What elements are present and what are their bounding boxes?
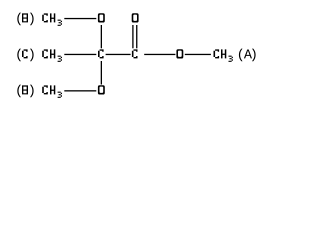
- node C carbonyl carbon: [132, 49, 138, 58]
- wire vertical bond central C to bottom O: [101, 61, 102, 85]
- chemical structure diagram: methyl 2,2-dimethoxypropanoate with NMR assignment labels: [0, 0, 288, 112]
- wire bond central C to carbonyl C: [106, 54, 131, 55]
- label CH3(A) right ester methyl group: [214, 49, 256, 62]
- label (B)CH3 bottom-left methoxy group: [17, 85, 62, 98]
- label (C)CH3 middle-left methyl group: [17, 49, 62, 62]
- node C central quaternary carbon: [98, 49, 104, 58]
- wire vertical bond top O to central C: [101, 25, 102, 48]
- wire bond ester O to CH3(A): [185, 54, 211, 55]
- node O bottom methoxy oxygen: [98, 85, 105, 94]
- wire bond top CH3 to O: [64, 18, 96, 19]
- node O ester oxygen: [176, 49, 183, 58]
- wire bond middle CH3 to central C: [64, 54, 96, 55]
- label (B)CH3 top-left methoxy group: [17, 13, 62, 26]
- wire bond carbonyl C to ester O: [144, 54, 175, 55]
- wire double bond O=C left line: [132, 25, 133, 48]
- wire bond bottom CH3 to O: [64, 90, 96, 91]
- node O top methoxy oxygen: [98, 13, 105, 22]
- wire double bond O=C right line: [136, 25, 137, 48]
- node O carbonyl oxygen: [132, 13, 139, 22]
